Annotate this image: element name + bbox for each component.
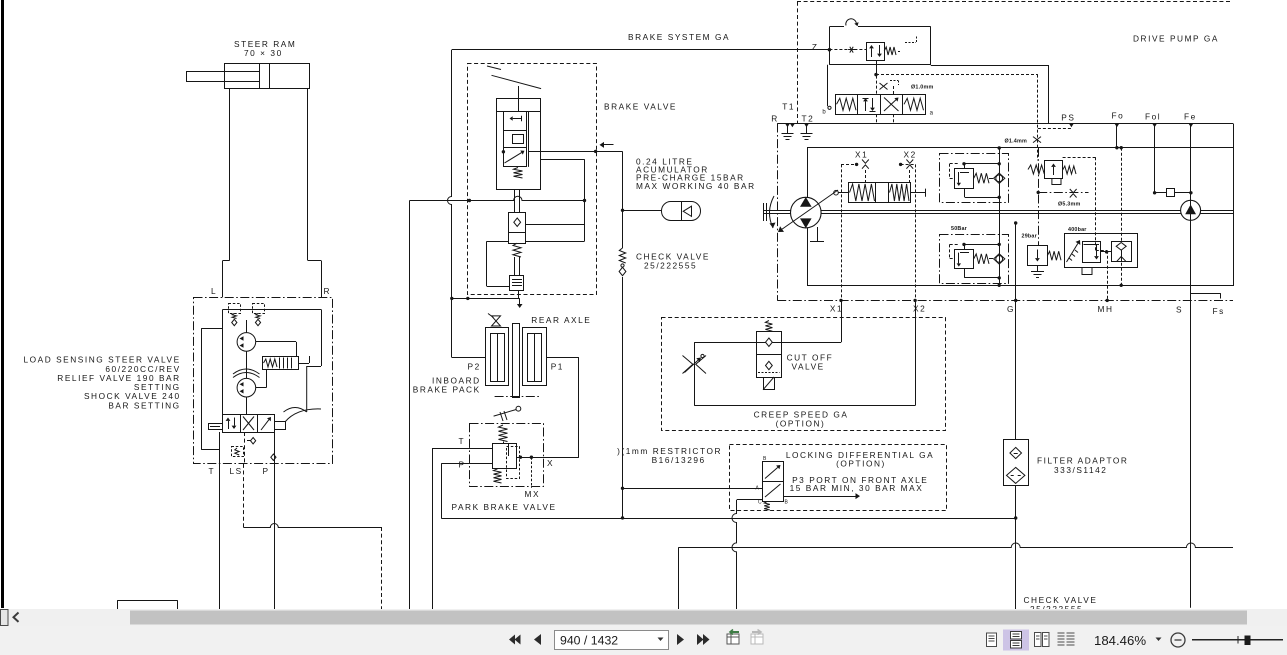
svg-text:T: T [209, 466, 216, 476]
svg-text:BAR SETTING: BAR SETTING [108, 400, 180, 410]
svg-text:MAX WORKING 40 BAR: MAX WORKING 40 BAR [636, 181, 756, 191]
svg-text:BRAKE PACK: BRAKE PACK [413, 385, 481, 395]
svg-text:B16/13296: B16/13296 [652, 455, 706, 465]
svg-text:184.46%: 184.46% [1094, 633, 1146, 648]
svg-text:X1: X1 [830, 304, 843, 314]
svg-text:X: X [547, 458, 554, 468]
svg-text:400bar: 400bar [1068, 227, 1087, 233]
svg-text:MH: MH [1098, 304, 1114, 314]
svg-text:B: B [785, 500, 789, 506]
svg-text:X1: X1 [855, 150, 868, 160]
svg-text:S: S [1176, 305, 1183, 315]
svg-text:P2: P2 [468, 362, 481, 372]
svg-text:(OPTION): (OPTION) [836, 459, 886, 469]
svg-text:A: A [756, 486, 760, 492]
svg-text:R: R [771, 113, 779, 123]
svg-text:BRAKE SYSTEM GA: BRAKE SYSTEM GA [628, 32, 730, 42]
svg-text:MX: MX [525, 489, 541, 499]
svg-text:R: R [324, 286, 332, 296]
svg-text:PS: PS [1061, 113, 1075, 123]
svg-text:Fs: Fs [1213, 306, 1225, 316]
svg-text:P: P [459, 460, 466, 470]
svg-text:Z: Z [812, 42, 819, 52]
svg-text:Fol: Fol [1145, 112, 1161, 122]
svg-text:Fo: Fo [1112, 110, 1125, 120]
svg-text:X2: X2 [913, 304, 926, 314]
svg-text:b: b [822, 110, 826, 116]
svg-text:a: a [930, 111, 934, 117]
svg-text:50Bar: 50Bar [951, 226, 968, 232]
svg-text:P: P [263, 466, 270, 476]
svg-text:BRAKE VALVE: BRAKE VALVE [604, 102, 677, 112]
svg-text:L: L [211, 286, 217, 296]
svg-text:B: B [763, 456, 767, 462]
svg-text:C: C [758, 500, 762, 506]
svg-text:70 × 30: 70 × 30 [244, 48, 283, 58]
svg-text:T1: T1 [782, 102, 795, 112]
svg-text:Ø1.4mm: Ø1.4mm [1005, 138, 1027, 144]
svg-text:Fe: Fe [1184, 112, 1197, 122]
svg-text:333/S1142: 333/S1142 [1054, 465, 1107, 475]
svg-text:P1: P1 [551, 362, 564, 372]
svg-text:REAR AXLE: REAR AXLE [531, 315, 591, 325]
svg-text:29bar: 29bar [1022, 233, 1038, 239]
svg-text:LS: LS [230, 466, 243, 476]
svg-text:940 / 1432: 940 / 1432 [560, 634, 618, 648]
svg-text:G: G [1007, 304, 1015, 314]
svg-text:T2: T2 [802, 113, 815, 123]
svg-text:Ø1.0mm: Ø1.0mm [911, 85, 933, 91]
svg-text:Ø5.3mm: Ø5.3mm [1058, 202, 1080, 208]
svg-text:25/222555: 25/222555 [644, 261, 697, 271]
svg-text:X2: X2 [904, 150, 917, 160]
svg-text:DRIVE PUMP GA: DRIVE PUMP GA [1133, 34, 1219, 44]
svg-text:(OPTION): (OPTION) [776, 419, 826, 429]
svg-text:VALVE: VALVE [792, 362, 825, 372]
svg-text:15 BAR MIN, 30 BAR MAX: 15 BAR MIN, 30 BAR MAX [790, 483, 924, 493]
svg-text:PARK BRAKE VALVE: PARK BRAKE VALVE [452, 502, 557, 512]
svg-text:T: T [459, 436, 466, 446]
